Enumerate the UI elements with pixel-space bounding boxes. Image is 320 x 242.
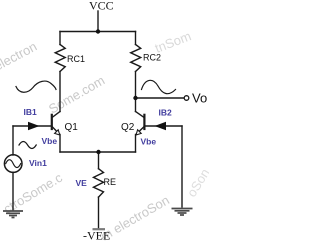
wire Q1 emitter drop	[59, 135, 61, 153]
wire Vin1 bottom	[12, 172, 14, 210]
transistor Q2	[136, 112, 145, 136]
svg-text:RC2: RC2	[143, 53, 161, 63]
svg-text:Vbe: Vbe	[42, 136, 58, 146]
arrow IB1	[28, 122, 40, 131]
wire right collector lower	[135, 72, 137, 112]
svg-text:VCC: VCC	[89, 0, 114, 13]
ground right	[172, 209, 193, 216]
svg-text:Q1: Q1	[65, 122, 79, 133]
wire base Q1	[13, 125, 51, 127]
watermark	[0, 28, 213, 242]
resistor RC1	[55, 45, 65, 72]
svg-text:RE: RE	[104, 177, 117, 187]
sine annotation left	[16, 81, 56, 92]
sine annotation output	[142, 80, 176, 93]
svg-text:Vbe: Vbe	[141, 137, 157, 147]
ground left	[3, 211, 23, 218]
svg-text:VE: VE	[76, 178, 88, 188]
resistor RC2	[131, 45, 141, 72]
wire emitter rail	[60, 151, 136, 153]
svg-text:Vin1: Vin1	[29, 158, 47, 168]
wire right collector upper	[135, 32, 137, 45]
terminal Vo	[184, 96, 189, 101]
wire right drop	[181, 126, 183, 207]
sine annotation input small	[19, 142, 36, 149]
wire Q2 emitter drop	[135, 135, 137, 153]
wire left collector lower	[59, 72, 61, 112]
node output junction	[133, 96, 137, 100]
wire VCC stem	[97, 11, 99, 32]
wire top rail	[60, 31, 136, 33]
svg-text:Q2: Q2	[121, 122, 135, 133]
node VCC junction	[96, 29, 100, 33]
wire base Q2	[145, 125, 182, 127]
source Vin1	[4, 155, 22, 173]
resistor RE	[94, 169, 104, 197]
arrow IB2	[155, 122, 167, 131]
svg-text:RC1: RC1	[67, 54, 85, 64]
wire output	[136, 97, 185, 99]
wire RE upper	[98, 152, 100, 169]
wire RE lower	[98, 197, 100, 228]
svg-text:IB2: IB2	[159, 108, 173, 118]
node emitter junction	[96, 150, 100, 154]
wire Vin1 top	[12, 126, 14, 155]
terminal -VEE bar	[93, 228, 106, 230]
svg-text:Vo: Vo	[192, 91, 207, 106]
svg-text:IB1: IB1	[24, 107, 38, 117]
svg-text:-VEE: -VEE	[83, 229, 110, 242]
wire left collector upper	[59, 32, 61, 45]
transistor Q1	[52, 112, 60, 136]
